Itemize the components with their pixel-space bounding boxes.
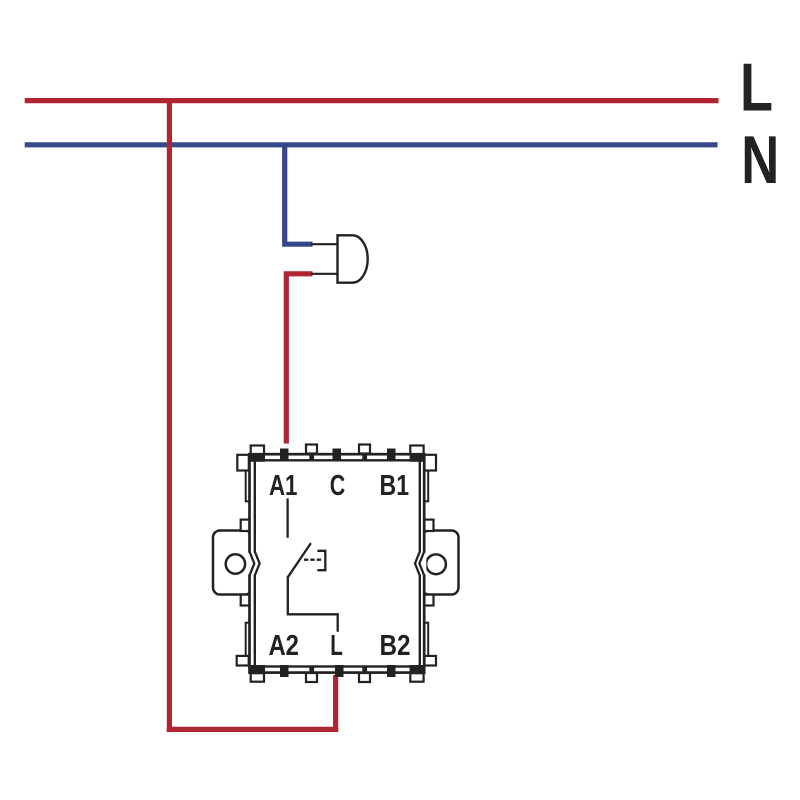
terminal tab C (top) <box>333 449 342 462</box>
svg-text:A2: A2 <box>268 630 299 662</box>
switch module: bottom guide tab 2 <box>359 666 370 682</box>
switch module: outer frame <box>250 454 425 672</box>
svg-text:B2: B2 <box>380 630 411 662</box>
switch module: right wall clip arm upper <box>424 471 428 502</box>
switch module: inner liner <box>255 460 420 666</box>
terminal tab A2 (bottom) <box>280 665 289 677</box>
switch module: left side lower tab <box>237 656 249 666</box>
switch module: left wall spring notch <box>247 552 259 576</box>
switch module: right lug screw hole <box>426 554 446 574</box>
switch module: left lug screw hole <box>226 554 245 573</box>
wire: bottom horizontal red run <box>167 727 338 732</box>
switch module: top guide tab 1 <box>306 445 317 461</box>
switch module: right wall clip arm lower <box>424 623 428 659</box>
terminal tab L (bottom) <box>335 665 344 677</box>
switch module: right side upper tab <box>425 455 437 471</box>
switch module: bottom guide tab 1 <box>306 666 317 682</box>
switch module: bottom-left corner tab <box>250 665 265 682</box>
switch module: right side lower tab <box>425 656 437 666</box>
switch module: right mounting lug <box>422 531 459 595</box>
svg-text:B1: B1 <box>380 470 410 502</box>
switch module: top-right corner tab <box>410 446 425 462</box>
terminal tab B2 (bottom) <box>387 665 396 677</box>
wire: blue drop from N to lamp <box>285 145 313 244</box>
switch module: left wall clip arm upper <box>246 471 250 502</box>
svg-text:L: L <box>330 630 343 662</box>
switch S1: actuator dashed link <box>304 559 323 561</box>
switch S1: blade (open contact) <box>288 543 311 577</box>
wire L (live conductor, horizontal red bus) <box>25 98 719 103</box>
svg-text:A1: A1 <box>269 470 298 502</box>
switch module: right wall spring notch <box>415 552 426 576</box>
switch module: left mounting lug <box>213 531 252 595</box>
switch module: left lug upper bridge tab <box>241 520 252 531</box>
switch S1: internal wire to terminal L <box>288 576 338 632</box>
switch module: top guide tab 2 <box>359 445 370 461</box>
lamp lead (bottom, to red) <box>311 273 338 275</box>
switch S1: push actuator bracket <box>317 551 325 570</box>
svg-text:C: C <box>330 470 346 502</box>
switch module: left wall clip arm lower <box>246 623 250 659</box>
switch module: top-left corner tab <box>250 446 265 462</box>
lamp lead (top, to blue) <box>311 243 338 245</box>
switch module: right lug upper bridge tab <box>423 520 434 531</box>
terminal tab A1 (top) <box>280 449 289 462</box>
svg-text:N: N <box>741 123 779 198</box>
switch module: left lug lower bridge tab <box>241 595 252 606</box>
switch module: bottom-right corner tab <box>410 665 425 682</box>
switch module: left side upper tab <box>237 455 249 471</box>
wire: red drop from L bus down to bottom run <box>167 98 172 732</box>
switch module: right lug lower bridge tab <box>423 595 434 606</box>
svg-text:L: L <box>740 50 773 125</box>
terminal tab B1 (top) <box>387 449 396 462</box>
lamp E1 (load) <box>338 235 368 282</box>
wire: red from lamp to switch terminal A1 <box>286 274 312 444</box>
switch S1: pole line from A1 <box>286 498 288 537</box>
wire N (neutral conductor, horizontal blue bus) <box>25 142 718 147</box>
wire: red riser from bottom run to switch terminal L <box>333 675 338 732</box>
